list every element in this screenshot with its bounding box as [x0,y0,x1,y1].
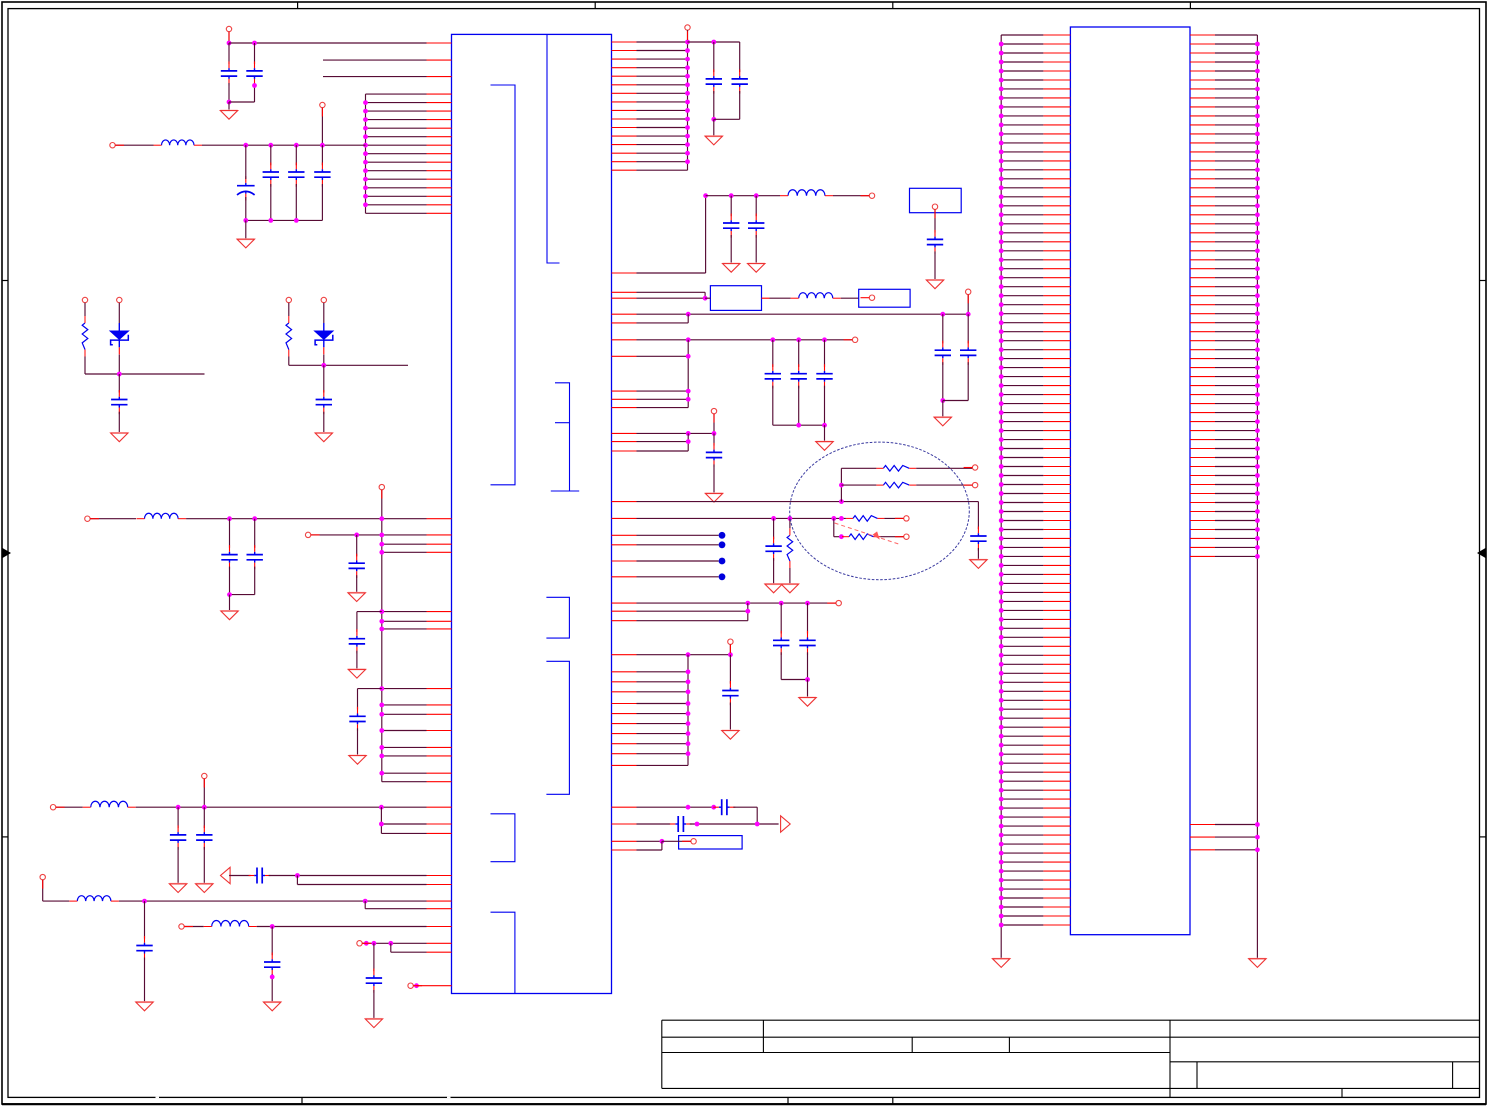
U1 right pin 314 [612,313,969,315]
U1 pin 901 [427,900,452,902]
junction 875 [295,873,300,878]
ground G3 [221,611,238,620]
U1 pin 875 [427,875,452,877]
wire bus right top group [687,42,689,170]
wire C26 top [772,340,774,367]
U1 pin 747 [382,746,452,748]
junction 339 C [796,337,801,342]
wire C25 bottom [967,362,969,400]
wire C14 bottom [203,847,205,883]
junction C1-gnd [227,100,232,105]
no-connect dot 1 [719,532,726,539]
junction L2 net A [227,516,232,521]
U1 pin VDD1 wire [229,42,452,44]
wire OP1-cap [229,875,251,877]
no-connect dot 4 [719,573,726,580]
U1 pin 952 [391,951,452,953]
wire topnet right [688,41,740,43]
component box FB1 [710,286,761,311]
terminal TVS1 in B [117,297,122,302]
U1 right pin 441 [612,441,689,443]
junctions J1 right bus [1255,42,1260,559]
wire gnd drop G12 [713,119,715,135]
wire C25 top [967,314,969,343]
junction busB row 6 [686,721,691,726]
border zone tick top 4 [1189,2,1191,9]
wire C30 bottom [977,548,979,559]
wire C2 top lead [254,43,256,64]
wire gnd join top [229,101,255,103]
wire R4 left [834,536,842,538]
wire C35 out [733,806,757,808]
junction busA row 15 [685,159,690,164]
wire P9 down [42,880,44,901]
junction busA row 7 [685,91,690,96]
wire gnd drop [228,102,230,110]
U1 right pin 433 [612,432,715,434]
wire gnd drop G17 [824,425,826,441]
wire C24C25 join [943,400,968,402]
border zone tick top 2 [594,2,596,9]
junction 298 [703,296,708,301]
U1 left pin group1 row 9 [366,161,452,163]
junction 339 B [770,337,775,342]
IC U1 internal bracket 4 [546,597,569,638]
junction 901 A [142,899,147,904]
capacitor C32 [773,631,789,655]
junction 901 B [363,899,368,904]
wire D1 top [118,303,120,323]
junction 985 [414,983,419,988]
wire L5-pin [257,926,427,928]
wire C10 bottom [356,575,358,592]
U1 right pin 322 [612,322,689,324]
wire bus left mid [381,490,383,782]
junction bus 611 [379,609,384,614]
wire 611 to cap [357,611,382,613]
junction gnd bus 1 [243,218,248,223]
capacitor C14 [196,825,212,849]
U1 pin 518 [427,518,452,520]
junction busB row 1 [686,669,691,674]
U1 right pin groupB row 4 [612,703,689,705]
capacitor C23 [927,230,943,254]
U1 right pin 339 [612,339,853,341]
capacitor C34 [722,681,738,705]
U1 left pin group1 row 13 [366,195,452,197]
U1 pin 544 [382,543,452,545]
wire C34 bottom [729,703,731,731]
terminal P26 in J4 [691,839,696,844]
annotation ellipse [790,442,970,580]
wire P9-L4 [43,900,70,902]
wire C26 bottom [772,386,774,426]
ground G22 [799,698,816,707]
junction busB row 3 [686,689,691,694]
wire P7-L3 [56,806,83,808]
junction 535 bus [379,533,384,538]
U1 right pin 603 [612,602,836,604]
wire C16 top [144,901,146,939]
junction busB row 4 [686,701,691,706]
wire C14 top [203,807,205,828]
ground G24 [993,959,1010,968]
junction bus group1 row 8 [363,151,368,156]
U1 right pin groupA row 8 [612,101,688,103]
wire C3 bottom [245,197,247,220]
wire R2 right [916,484,972,486]
resistor R2t [286,316,292,357]
junction 841 [660,839,665,844]
U1 right pin 298 [612,297,706,299]
terminal P8 [202,773,207,778]
U1 right pin 407 [612,407,689,409]
connector box J2 [859,289,910,307]
U1 right pin groupA row 5 [612,75,688,77]
junction L2 net bus [379,516,384,521]
wire C21 top [730,196,732,217]
U1 pin 833 [381,832,451,834]
junction busA row 2 [685,48,690,53]
capacitor C18 [366,969,382,993]
junction 603 A [745,601,750,606]
terminal TVS2 in A [286,297,291,302]
junction 807r B [711,805,716,810]
junction 433 B [712,431,717,436]
wire 292 drop [704,292,706,298]
ground G7 [169,884,186,893]
U1 right pin groupB row 3 [612,691,689,693]
wire C33 top [807,603,809,633]
border zone tick bottom 1 [301,1097,303,1104]
wire C29 bottom [713,464,715,493]
U1 pin stub B [323,76,452,78]
wire P3 down [321,108,323,146]
wire C1 top lead [228,43,230,64]
U1 pin 621 [382,620,452,622]
wire R4 riser [833,518,835,536]
junction topnet C19 [711,40,716,45]
border zone tick top 3 [892,2,894,9]
no-stuff marker dashed [835,523,901,545]
wire C26-28 join [773,424,825,426]
terminal P9 [40,874,45,879]
wire C23 bottom [934,251,936,279]
terminal P5 [85,516,90,521]
U1 right pin 654 [612,654,731,656]
junction 195 B [729,193,734,198]
wire L4-pin [119,900,427,902]
wire 298 into FB1 [705,297,710,299]
junction C2-gnd [252,83,257,88]
junction bus group1 row 12 [363,185,368,190]
junction 314 A [940,312,945,317]
border zone tick left [2,280,8,282]
capacitor C26 [765,364,781,388]
wire P16 down [934,209,936,232]
wire D2 bottom [323,355,325,366]
IC U1 internal bracket 6 [491,814,515,862]
junction busB row 7 [686,731,691,736]
U1 right pin groupA row 7 [612,92,688,94]
junction TVS2 [321,363,326,368]
U1 pin 884 [297,884,451,886]
junction bus 755 [379,754,384,759]
wire C13 bottom [177,847,179,883]
wire C8 top [229,519,231,548]
wire P1 down [228,32,230,43]
terminal P21 [972,482,977,487]
U1 right pin 850 [612,849,662,851]
no-stuff marker arrowhead [873,531,880,539]
wire C19 bottom [713,91,715,119]
connector J1 right pins 1-59 [1190,35,1257,556]
ground G19 [970,560,987,569]
terminal P16 in J3 [932,204,937,209]
capacitor C4 [263,163,279,187]
off-page connector OP1 [221,867,231,883]
wire R5 top [789,518,791,528]
wire P12-dot [414,985,417,987]
wire R2t bottom [288,357,290,366]
junctions J1 left bus [999,42,1004,928]
wire P13 down [687,30,689,42]
wire C31 top [773,518,775,539]
junction bus 356 [686,354,691,359]
wire C36 out [690,823,779,825]
capacitor C24 [935,341,951,365]
resistor R5 [787,528,793,568]
junction 943 C [388,941,393,946]
junction 654 B [728,652,733,657]
junction L1 net cap 3 [294,143,299,148]
wire R1 right [916,467,972,469]
wire 841 into J4 [662,840,691,842]
junction busA row 10 [685,117,690,122]
wire P8 down [203,779,205,808]
junction bus 714 [379,712,384,717]
connector box J3 [910,188,962,212]
U1 right pin groupA row 1 [612,41,688,43]
U1 right pin groupA row 4 [612,67,688,69]
ground G2 [237,239,254,248]
connector box J4 [679,836,743,849]
capacitor C30 [970,527,986,551]
wire R5 bottom [789,568,791,584]
junction bus 688 [379,686,384,691]
wire C18 top [373,943,375,971]
junction 518 B [788,516,793,521]
no-connect dot 3 [719,558,726,565]
wire C15-pin [269,875,427,877]
capacitor C31 [765,537,781,561]
ground G15 [926,280,943,289]
wire P19 down [713,414,715,434]
capacitor C28 [816,364,832,388]
IC U1 internal divider 1 [547,34,560,263]
wire C20 bottom [739,91,741,119]
wire C-TVS1 top [118,374,120,393]
U1 right pin groupA row 10 [612,118,688,120]
U1 right pin 273 [612,272,706,274]
inductor L4 [69,896,119,901]
junction res pair mid [839,483,844,488]
terminal P11 [357,941,362,946]
terminal P18 [852,337,857,342]
wire C13 top [177,807,179,828]
U1 right pin groupB row 1 [612,671,689,673]
junction bus group1 row 6 [363,134,368,139]
wire C32 top [780,603,782,633]
U1 pin 781 [382,781,452,783]
capacitor C3 polarized [237,176,255,200]
junction 807r A [686,805,691,810]
junction busA row 13 [685,142,690,147]
wire bus 433-451 [687,433,689,451]
wire gnd drop G16 [942,401,944,417]
U1 pin 807 [427,806,452,808]
junction bus 552 [379,550,384,555]
junction 518 C [831,516,836,521]
capacitor C15 [249,868,271,884]
ground G8 [196,884,213,893]
U1 right pin groupB row 5 [612,713,689,715]
junction busA row 11 [685,125,690,130]
junction bus 747 [379,745,384,750]
wire bus J1 right [1256,35,1258,958]
junction TVS1 [117,372,122,377]
wire bus 807-833 [380,807,382,833]
junction P1-B [252,41,257,46]
junction bus 773 [379,771,384,776]
junction 518 D [839,516,844,521]
diode D1 TVS [110,323,128,354]
junction bus 391 [686,389,691,394]
wire P25 down [729,644,731,654]
junction bus group1 row 9 [363,160,368,165]
wire C18 bottom [373,990,375,1018]
wire R2 left [841,484,876,486]
capacitor C19 [706,69,722,93]
U1 left pin group1 row 11 [366,178,452,180]
junction 603 C [805,601,810,606]
wire C4 top [270,145,272,165]
junction bus 544 [379,542,384,547]
wire gnd drop 3 [229,595,231,611]
wire R3-term [884,517,903,519]
capacitor C25 [960,341,976,365]
U1 left pin group1 row 10 [366,170,452,172]
wire C10 top [356,535,358,557]
wire C5 bottom [295,184,297,220]
junction busA row 12 [685,134,690,139]
wire D2 top [323,303,325,323]
wire bus 339-407 [687,340,689,408]
capacitor C27 [791,364,807,388]
wire P6-pin [311,534,426,536]
U1 right pin groupA row 11 [612,127,688,129]
junction 195 C [754,193,759,198]
terminal P20 [972,465,977,470]
wire 908 riser [364,901,366,909]
junction bus group1 row 10 [363,168,368,173]
U1 right pin 356 [612,355,689,357]
terminal P4 [379,484,384,489]
capacitor C9 [247,545,263,569]
IC U1 internal bracket 3 [551,383,579,491]
terminal P10 [179,924,184,929]
U1 right pin groupB row 9 [612,753,689,755]
wire 884 riser [296,876,298,885]
wire C32 bottom [780,652,782,679]
junction C28 join [822,423,827,428]
U1 right pin groupB row 7 [612,733,689,735]
U1 right pin groupB row 6 [612,723,689,725]
wire C32C33 join [781,679,807,681]
U1 left pin group1 row 3 [366,110,452,112]
wire bus right lower group [687,655,689,766]
terminal P6 [305,532,310,537]
wire 273 riser [705,196,707,273]
wire FB1-L7 red [762,297,770,299]
U1 left pin group1 row 14 [366,204,452,206]
ground G13 [723,264,740,273]
wire 850 riser [661,841,663,850]
ground G4 [348,593,365,602]
terminal P25 [728,639,733,644]
U1 pin 611 [382,611,452,613]
wire gnd drop 2 [245,220,247,238]
junction bus 628 [379,627,384,632]
U1 right pin groupA row 16 [612,169,688,171]
capacitor C16 [136,936,152,960]
wire P17 down [967,295,969,315]
U1 pin 714 [382,713,452,715]
border mid arrow right [1477,548,1486,558]
ground G10 [264,1002,281,1011]
inductor L6 [780,190,833,196]
junction 603 B [779,601,784,606]
wire R2t top [288,303,290,316]
junction 943 A [364,941,369,946]
wire R1 left [841,467,876,469]
U1 pin 628 [382,628,452,630]
wire C27 top [798,340,800,367]
capacitor C36 [670,816,692,832]
terminal P22 [904,516,909,521]
junction 807 A [176,805,181,810]
resistor R1 [876,466,916,472]
U1 left pin group1 row 12 [366,187,452,189]
junction C19C20 [711,117,716,122]
junction 824r B [755,822,760,827]
U1 pin 535 [427,534,452,536]
wire C5 top [295,145,297,165]
wire C17 top [271,927,273,956]
ground G12 [705,136,722,145]
U1 right pin groupA row 9 [612,109,688,111]
U1 right pin groupA row 3 [612,58,688,60]
junction L2 net B [252,516,257,521]
U1 right pin 611b [612,610,748,612]
wire C2 bottom [254,83,256,102]
wire C6 bottom [321,184,323,220]
wire C28 bottom [824,386,826,426]
wire P5-L2 [90,518,136,520]
wire C-TVS2 top [323,365,325,392]
sheet outer border bottom thick [2,1103,1486,1105]
wire TVS1 junction row [85,373,205,375]
